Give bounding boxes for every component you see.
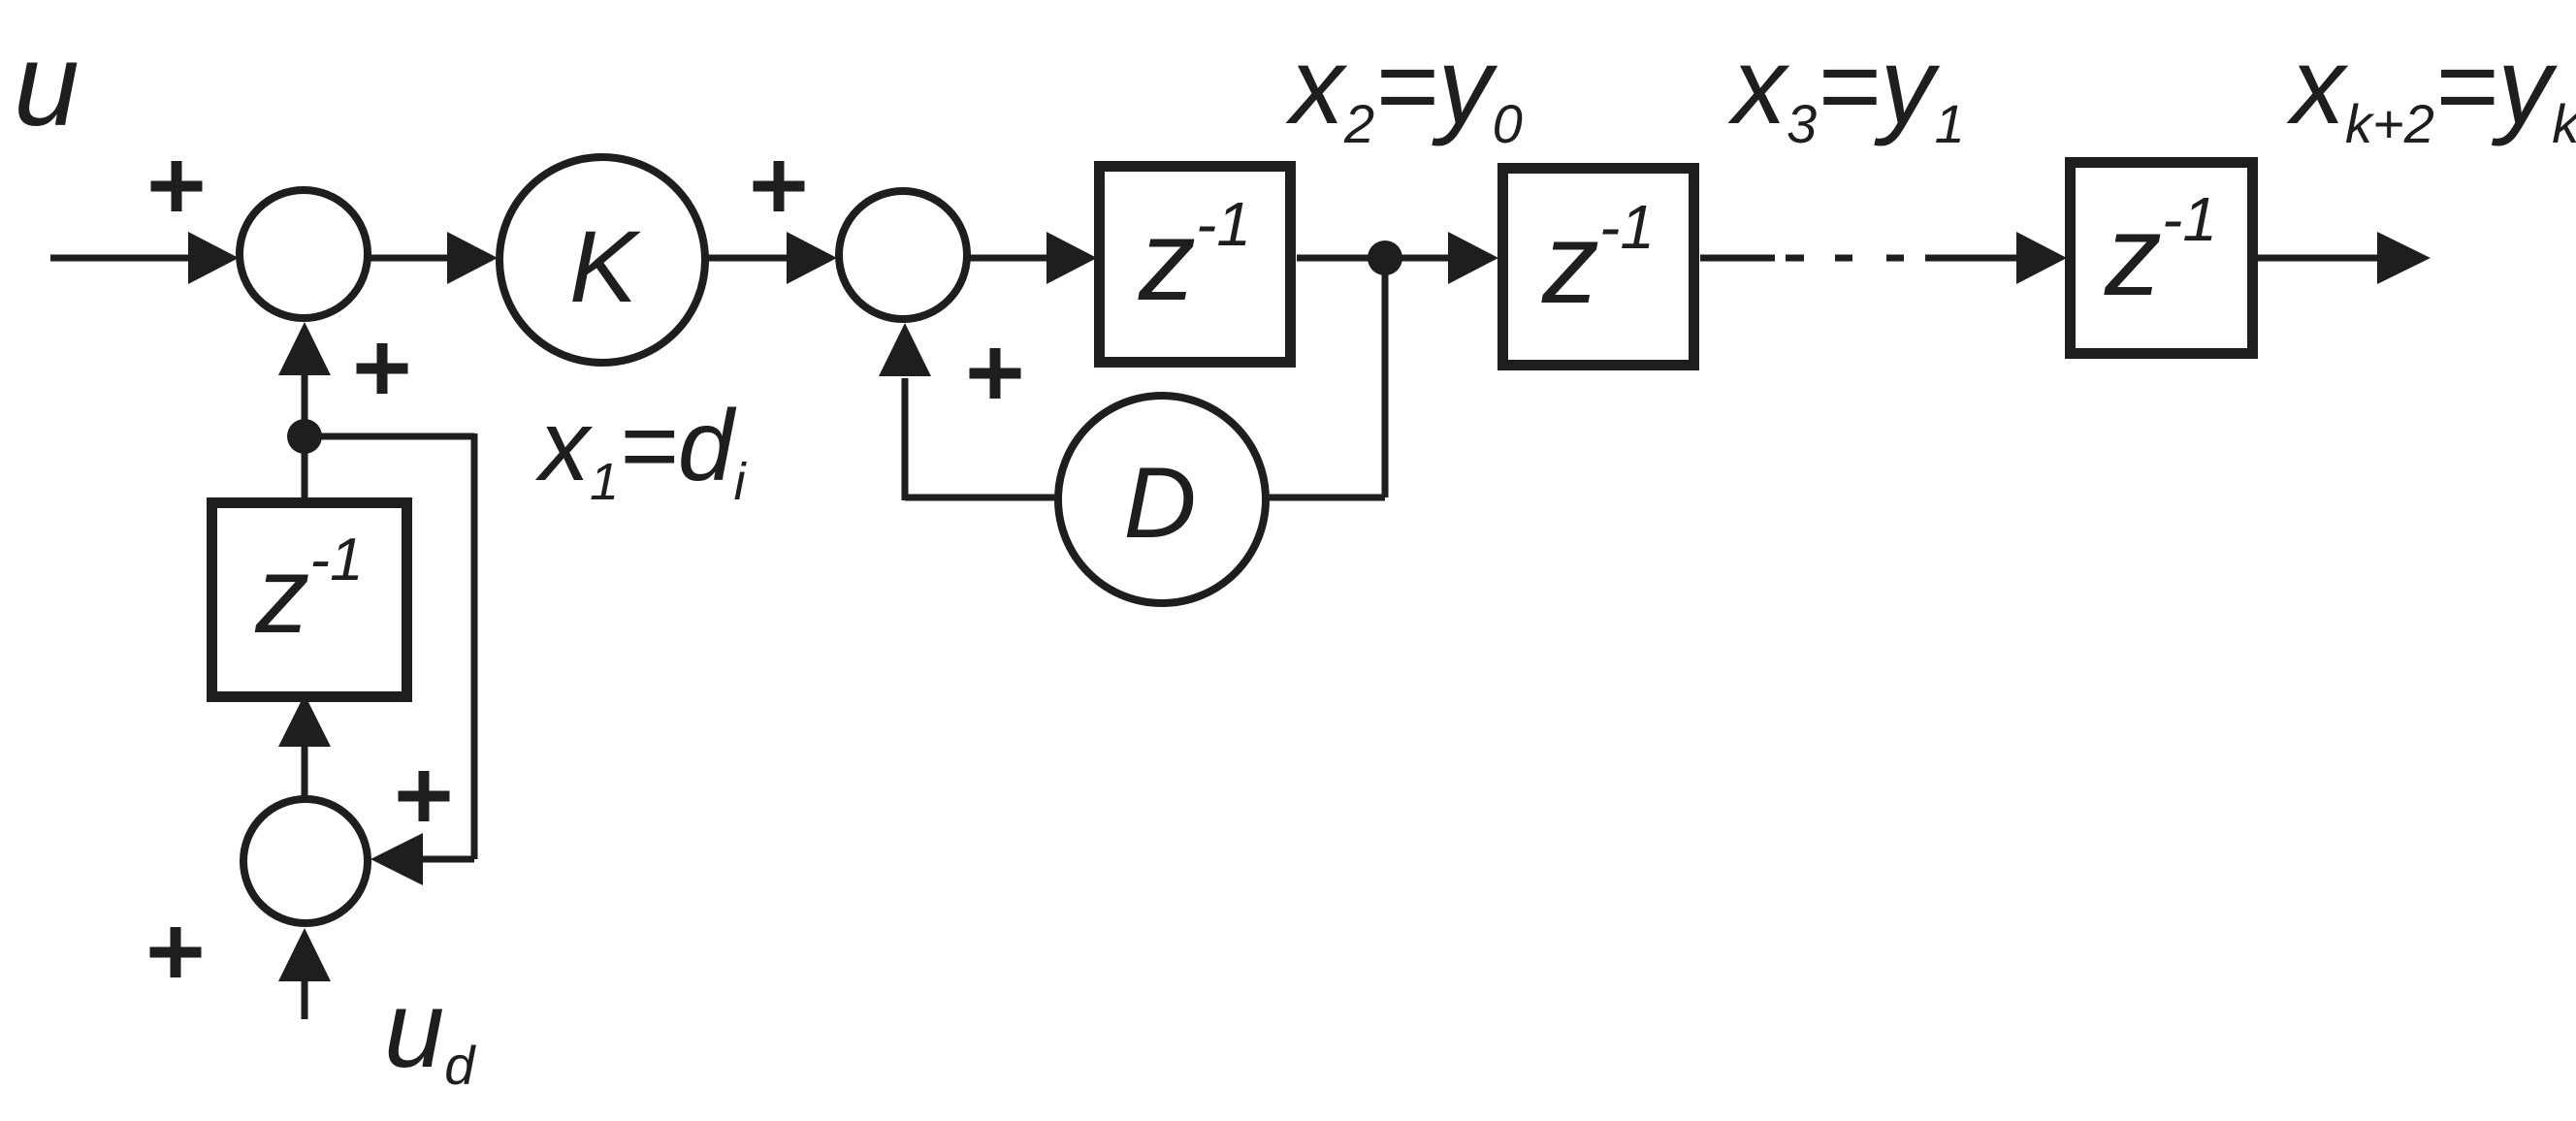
svg-text:x3=y1: x3=y1 <box>1727 25 1965 154</box>
svg-text:u: u <box>14 18 80 150</box>
svg-text:D: D <box>1123 447 1196 560</box>
svg-text:x1=di: x1=di <box>534 390 748 511</box>
svg-text:K: K <box>569 210 641 324</box>
svg-text:x2=y0: x2=y0 <box>1285 25 1523 154</box>
